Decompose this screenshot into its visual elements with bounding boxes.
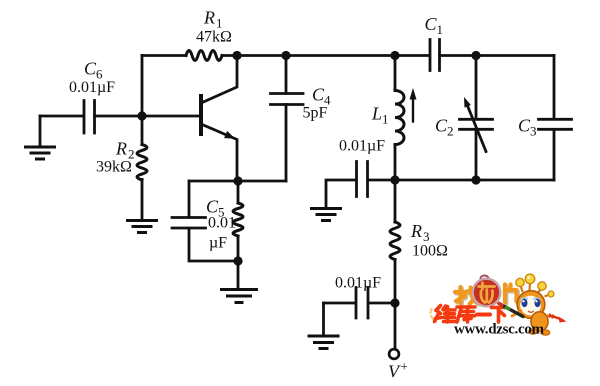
svg-text:1: 1 <box>382 112 389 127</box>
svg-text:R: R <box>115 139 127 159</box>
svg-text:39kΩ: 39kΩ <box>96 159 132 176</box>
svg-text:5pF: 5pF <box>303 105 328 122</box>
svg-text:2: 2 <box>447 124 454 139</box>
svg-text:L: L <box>371 104 382 124</box>
svg-text:+: + <box>401 359 408 374</box>
svg-text:0.01µF: 0.01µF <box>339 138 385 155</box>
svg-text:3: 3 <box>530 124 537 139</box>
svg-text:0.01: 0.01 <box>208 215 236 232</box>
svg-text:0.01µF: 0.01µF <box>69 79 115 96</box>
svg-text:1: 1 <box>437 22 444 37</box>
svg-text:www.dzsc.com: www.dzsc.com <box>454 322 545 338</box>
svg-text:47kΩ: 47kΩ <box>196 29 232 46</box>
svg-text:µF: µF <box>209 235 227 252</box>
svg-text:R: R <box>410 221 422 241</box>
svg-text:V: V <box>388 362 401 382</box>
svg-text:0.01µF: 0.01µF <box>335 275 381 292</box>
svg-text:R: R <box>203 8 215 28</box>
svg-text:100Ω: 100Ω <box>412 243 448 260</box>
